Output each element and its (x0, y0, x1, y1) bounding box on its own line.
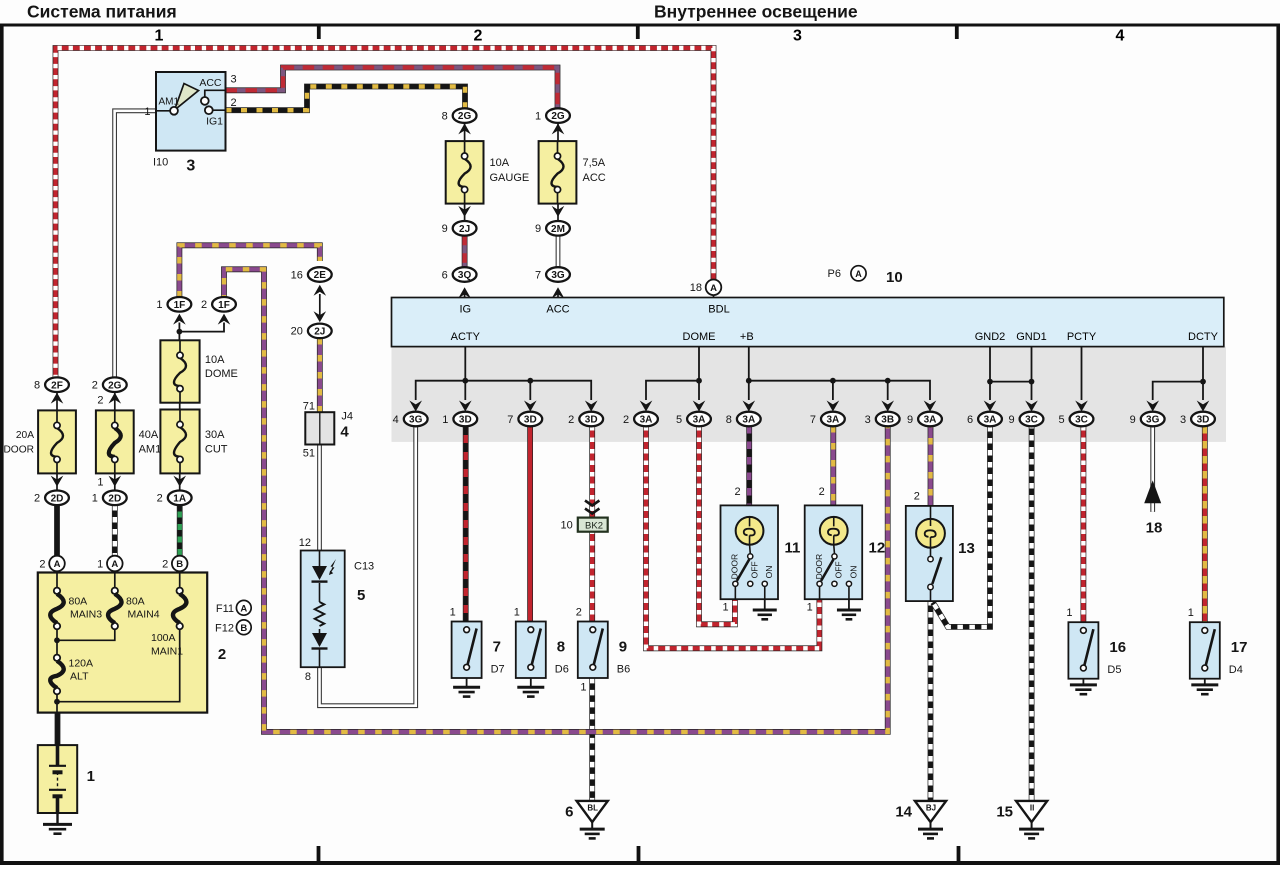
svg-text:DOOR: DOOR (814, 554, 824, 580)
svg-text:17: 17 (1231, 639, 1248, 656)
svg-text:7,5A: 7,5A (583, 157, 606, 169)
svg-text:2: 2 (97, 395, 103, 407)
svg-text:2J: 2J (314, 327, 325, 338)
fuse 30A CUT (179, 403, 181, 410)
node A from fuse AM1 (107, 556, 123, 572)
wire purple/yellow from connector 3A pin9 to lamp 13 pin2 (928, 426, 934, 506)
svg-text:1: 1 (87, 768, 95, 785)
svg-text:ACC: ACC (546, 303, 569, 315)
svg-text:ACTY: ACTY (451, 331, 481, 343)
connector 3D pin 7 (524, 401, 537, 412)
svg-text:2J: 2J (459, 224, 470, 235)
svg-text:F12: F12 (215, 622, 234, 634)
connector 3G pin7 (546, 267, 570, 282)
wire purple/yellow from connector 1F pin1 to connector 2E (179, 245, 319, 297)
svg-text:15: 15 (996, 803, 1013, 820)
connector 1F pin1 (168, 297, 192, 312)
svg-text:IG1: IG1 (206, 116, 223, 128)
main fusible link box item 2 (38, 573, 207, 713)
svg-text:3A: 3A (827, 415, 840, 426)
svg-text:4: 4 (340, 424, 349, 441)
fuse 40A AM1 (114, 392, 116, 410)
svg-text:18: 18 (1146, 520, 1163, 537)
connector 3A pin 9 (924, 401, 937, 412)
svg-text:10: 10 (561, 520, 573, 532)
connector 3A pin 6 (984, 401, 997, 412)
svg-text:A: A (710, 283, 717, 294)
svg-text:100A: 100A (151, 632, 176, 644)
svg-text:12: 12 (869, 539, 886, 556)
svg-text:16: 16 (291, 269, 303, 281)
svg-text:D4: D4 (1229, 664, 1243, 676)
connector 1F pin2 (212, 297, 236, 312)
svg-text:30A: 30A (205, 429, 225, 441)
svg-text:8: 8 (442, 110, 448, 122)
svg-text:J4: J4 (341, 411, 353, 423)
wire black from main fuse box to battery (55, 705, 61, 748)
svg-text:11: 11 (785, 539, 801, 556)
ignition switch I10 item 3 (144, 72, 236, 175)
svg-text:PCTY: PCTY (1067, 331, 1097, 343)
svg-text:9: 9 (619, 639, 627, 656)
svg-text:2: 2 (218, 646, 226, 663)
ECU pin name labels (451, 303, 1219, 343)
off-page connector arrow 18 (1144, 480, 1161, 503)
svg-text:BK2: BK2 (585, 520, 603, 531)
svg-text:3: 3 (1180, 414, 1186, 426)
connector 3Q pin6 (453, 267, 477, 282)
wire black/white from connector 2D pin1 to node A (112, 505, 118, 557)
svg-text:B: B (240, 623, 247, 634)
svg-text:1A: 1A (173, 493, 186, 504)
svg-text:80A: 80A (69, 596, 88, 608)
fusible link 120A ALT (54, 655, 60, 661)
svg-text:ACC: ACC (583, 172, 606, 184)
ground 15 II (1016, 801, 1047, 822)
wire purple/yellow from connector 3A pin7 to lamp 12 pin2 (830, 426, 836, 506)
svg-text:ON: ON (848, 566, 858, 579)
svg-text:1: 1 (442, 414, 448, 426)
svg-text:3Q: 3Q (458, 270, 472, 281)
node A at ECU BDL pin18 (706, 280, 722, 296)
wire white from J4 pin51 to C13 pin12 (317, 445, 322, 552)
svg-text:9: 9 (442, 223, 448, 235)
svg-text:1: 1 (514, 607, 520, 619)
svg-text:8: 8 (726, 414, 732, 426)
svg-text:GND2: GND2 (975, 331, 1006, 343)
svg-text:12: 12 (299, 537, 311, 549)
wire 1F junction to fuse DOME (178, 323, 180, 341)
svg-text:3A: 3A (693, 415, 706, 426)
svg-text:3G: 3G (551, 270, 565, 281)
svg-text:2: 2 (162, 558, 168, 570)
connector 2G pin2 (103, 377, 127, 392)
svg-text:BDL: BDL (708, 303, 729, 315)
connector 3D pin 2 (585, 401, 598, 412)
wire green/black from connector 1A to node B (177, 505, 183, 557)
svg-text:DOOR: DOOR (730, 554, 740, 580)
svg-text:1: 1 (722, 601, 728, 613)
svg-text:8: 8 (557, 639, 565, 656)
wire red/white from connector 3C pin5 to switch 16 (1081, 426, 1087, 622)
svg-text:2: 2 (623, 414, 629, 426)
svg-text:10: 10 (886, 269, 903, 286)
svg-text:ON: ON (764, 566, 774, 579)
svg-text:A: A (54, 559, 61, 570)
svg-text:1: 1 (97, 476, 103, 488)
fusible link 80A MAIN4 (114, 571, 116, 587)
svg-text:2: 2 (474, 28, 483, 45)
svg-text:3A: 3A (924, 415, 937, 426)
svg-text:ACC: ACC (199, 77, 222, 89)
svg-text:40A: 40A (139, 429, 159, 441)
svg-text:P6: P6 (828, 268, 841, 280)
svg-text:2D: 2D (108, 493, 121, 504)
svg-text:1: 1 (92, 493, 98, 505)
wire white from connector 3G pin4 via C13 loop (320, 426, 416, 706)
wire black from connector 2D to node A (54, 505, 60, 557)
svg-text:3A: 3A (742, 415, 755, 426)
svg-text:MAIN1: MAIN1 (151, 646, 183, 658)
ground of switch 16 (1082, 679, 1084, 685)
wire black/white from connector 3C pin9 to ground 15 (1029, 426, 1035, 800)
connector 3D pin 1 (459, 401, 472, 412)
svg-text:CUT: CUT (205, 443, 228, 455)
svg-text:AM1: AM1 (159, 96, 180, 107)
svg-text:II: II (1030, 803, 1034, 812)
svg-text:D5: D5 (1107, 664, 1121, 676)
svg-text:3A: 3A (640, 415, 653, 426)
ACTY distribution wiring (464, 347, 466, 381)
wire red/purple from ignition ACC pin3 to fuse ACC connector 2G (226, 68, 558, 110)
wire black/white from switch 9 pin1 to ground 6 (589, 678, 595, 800)
fuse 20A DOOR (56, 392, 58, 410)
svg-text:2: 2 (201, 299, 207, 311)
svg-text:3D: 3D (524, 415, 537, 426)
svg-text:1: 1 (144, 106, 150, 118)
ground 6 BL (577, 801, 608, 822)
svg-text:GND1: GND1 (1016, 331, 1047, 343)
svg-text:3D: 3D (585, 415, 598, 426)
wire red/purple from connector 2J to connector 3Q (IG feed) (462, 236, 468, 267)
svg-text:9: 9 (1130, 414, 1136, 426)
svg-text:120A: 120A (69, 658, 94, 670)
svg-text:B6: B6 (617, 664, 630, 676)
wire red/white from connector 3D pin2 through BK2 to switch 9 (589, 426, 595, 622)
svg-text:OFF: OFF (834, 561, 844, 578)
svg-text:5: 5 (1058, 414, 1064, 426)
svg-text:2: 2 (39, 558, 45, 570)
svg-text:F11: F11 (216, 603, 234, 615)
svg-text:DOOR: DOOR (3, 444, 34, 455)
svg-text:MAIN4: MAIN4 (128, 609, 160, 621)
door switch item 7 (452, 622, 482, 679)
svg-text:13: 13 (958, 540, 975, 557)
connector 3G pin 9 (1146, 401, 1159, 412)
wire white stub of off-page arrow 18 (1150, 426, 1155, 512)
connector 2G pin1 (546, 108, 570, 123)
door switch item 16 (1068, 622, 1098, 679)
wire black/yellow from ignition IG1 pin2 to fuse GAUGE connector 2G (226, 87, 466, 111)
svg-text:1: 1 (535, 110, 541, 122)
internal wiring of main fuse box (57, 629, 115, 640)
connector 2G pin8 (453, 108, 477, 123)
dome lamp item 12 (805, 505, 863, 599)
wire red/white from connector 3A pin2 to lamp 12 pin1 (646, 426, 819, 648)
svg-text:51: 51 (303, 448, 315, 460)
svg-text:8: 8 (34, 380, 40, 392)
wire red/white from connector 3A pin5 to lamp 11 pin1 (699, 426, 735, 624)
svg-text:80A: 80A (126, 596, 145, 608)
connector 2J pin9 (464, 204, 466, 222)
svg-text:2: 2 (34, 493, 40, 505)
wire purple/yellow long run from connector 1F pin2 to connector 3B (224, 269, 888, 732)
svg-text:2: 2 (568, 414, 574, 426)
svg-text:3D: 3D (1197, 415, 1210, 426)
ground below battery (56, 813, 58, 824)
connector 2D pin2 (56, 473, 58, 490)
svg-text:1: 1 (156, 299, 162, 311)
wire yellow/red from connector 3D pin3 to switch 17 (1202, 426, 1208, 622)
svg-text:3C: 3C (1075, 415, 1088, 426)
svg-text:3B: 3B (881, 415, 894, 426)
ground 14 BJ (915, 801, 946, 822)
svg-text:3C: 3C (1025, 415, 1038, 426)
svg-text:3: 3 (186, 158, 195, 175)
svg-text:7: 7 (507, 414, 513, 426)
fuse 10A DOME (160, 340, 199, 402)
sensor C13 item 5 (299, 537, 374, 683)
connector 2E pin16 (308, 267, 332, 282)
svg-text:+B: +B (740, 331, 754, 343)
svg-text:2: 2 (157, 493, 163, 505)
svg-text:2D: 2D (51, 493, 64, 504)
svg-text:3: 3 (865, 414, 871, 426)
svg-text:7: 7 (493, 639, 501, 656)
svg-text:OFF: OFF (750, 561, 760, 578)
svg-text:I10: I10 (153, 157, 168, 169)
node B from fuse CUT (172, 556, 188, 572)
wire black/white from lamp 13 pin1 to ground 14 (928, 600, 934, 800)
connector BK2 pin10 (585, 501, 599, 514)
svg-text:2: 2 (734, 486, 740, 498)
svg-text:DOME: DOME (683, 331, 716, 343)
svg-text:D7: D7 (491, 664, 505, 676)
GND2 GND1 distribution wiring (989, 347, 991, 400)
svg-text:3A: 3A (984, 415, 997, 426)
svg-text:DCTY: DCTY (1188, 331, 1219, 343)
svg-text:1: 1 (450, 607, 456, 619)
connector 2F pin8 (45, 377, 69, 392)
wire battery feed red/white from fuse 2F to node A/BDL (56, 48, 714, 379)
wire purple/yellow from connector 2J to junction J4 pin71 (317, 338, 323, 412)
connector 3C pin 5 (1075, 401, 1088, 412)
svg-text:C13: C13 (354, 561, 374, 573)
junction connector J4 item 4 (305, 412, 334, 444)
svg-text:MAIN3: MAIN3 (70, 609, 102, 621)
connector 2D pin1 (114, 473, 116, 490)
svg-text:1: 1 (1066, 607, 1072, 619)
svg-text:2M: 2M (551, 224, 565, 235)
node A from fuse DOOR (49, 556, 65, 572)
svg-text:2G: 2G (108, 380, 122, 391)
svg-text:ALT: ALT (70, 671, 89, 683)
svg-text:5: 5 (357, 587, 365, 604)
wire black/purple from connector 3A pin8 to lamp 11 pin2 (746, 426, 752, 506)
svg-text:1: 1 (155, 28, 164, 45)
svg-text:Система питания: Система питания (27, 2, 177, 22)
svg-text:6: 6 (442, 269, 448, 281)
luggage lamp item 13 (906, 491, 975, 602)
fusible link 100A MAIN1 (179, 571, 181, 587)
svg-text:9: 9 (907, 414, 913, 426)
dome lamp item 11 (721, 505, 779, 599)
svg-text:7: 7 (810, 414, 816, 426)
svg-text:10A: 10A (205, 354, 225, 366)
wire red from connector 3D pin7 to switch 8 (527, 426, 533, 622)
svg-text:A: A (111, 559, 118, 570)
svg-text:1F: 1F (218, 300, 230, 311)
svg-text:10A: 10A (490, 157, 510, 169)
svg-text:DOME: DOME (205, 368, 238, 380)
svg-text:9: 9 (535, 223, 541, 235)
connector 3B pin 3 (881, 401, 894, 412)
PCTY distribution wiring (1081, 347, 1083, 400)
DOME distribution wiring (646, 347, 699, 400)
svg-text:2E: 2E (314, 270, 327, 281)
wire red/black from connector 3D pin1 to switch 7 (463, 426, 469, 622)
connector 3A pin 5 (693, 401, 706, 412)
svg-text:A: A (855, 269, 862, 279)
svg-text:2: 2 (819, 486, 825, 498)
connector 3C pin 9 (1025, 401, 1038, 412)
svg-text:1F: 1F (174, 300, 186, 311)
svg-text:4: 4 (393, 414, 399, 426)
svg-text:A: A (240, 603, 247, 614)
svg-text:8: 8 (305, 671, 311, 683)
svg-text:71: 71 (303, 401, 315, 413)
svg-text:7: 7 (535, 269, 541, 281)
svg-text:2: 2 (231, 97, 237, 109)
svg-text:2G: 2G (551, 111, 565, 122)
ECU junction block 10 blue band (392, 298, 1224, 347)
svg-text:3: 3 (793, 28, 802, 45)
DCTY distribution wiring (1202, 347, 1204, 400)
svg-text:B: B (176, 559, 183, 570)
svg-text:IG: IG (459, 303, 471, 315)
svg-text:1: 1 (807, 601, 813, 613)
connector 3D pin 3 (1197, 401, 1210, 412)
connector 3A pin 8 (743, 401, 756, 412)
wire white from ignition AM1 pin1 to connector 2G (115, 111, 156, 379)
svg-text:AM1: AM1 (139, 443, 162, 455)
svg-text:3G: 3G (409, 415, 423, 426)
connector 2J pin20 (319, 294, 321, 315)
svg-text:1: 1 (1188, 607, 1194, 619)
svg-text:3: 3 (231, 74, 237, 86)
svg-text:2G: 2G (458, 111, 472, 122)
svg-text:2: 2 (576, 607, 582, 619)
connector 3A pin 2 (640, 401, 653, 412)
svg-text:D6: D6 (555, 664, 569, 676)
door switch item 17 (1190, 622, 1220, 679)
ECU junction block 10 gray band (392, 347, 1227, 442)
svg-text:Внутреннее освещение: Внутреннее освещение (654, 2, 858, 22)
battery item 1 (38, 745, 77, 813)
svg-text:2: 2 (914, 491, 920, 503)
svg-text:6: 6 (967, 414, 973, 426)
door switch item 9 (578, 622, 608, 679)
svg-text:3D: 3D (459, 415, 472, 426)
+B distribution wiring (749, 347, 930, 400)
svg-text:1: 1 (97, 558, 103, 570)
wire white from connector 2M to connector 3G (ACC feed) (556, 236, 561, 267)
svg-text:BJ: BJ (926, 803, 936, 812)
svg-text:BL: BL (587, 803, 598, 812)
fuse 10A GAUGE (464, 123, 466, 141)
svg-text:16: 16 (1109, 639, 1126, 656)
svg-text:20A: 20A (16, 430, 34, 441)
connector 1A pin2 (179, 473, 181, 490)
svg-text:2: 2 (92, 380, 98, 392)
svg-text:9: 9 (1008, 414, 1014, 426)
ground of switch 7 (466, 678, 468, 687)
svg-text:5: 5 (676, 414, 682, 426)
connector 3G pin 4 (409, 401, 422, 412)
door switch item 8 (516, 622, 546, 679)
svg-text:GAUGE: GAUGE (490, 172, 530, 184)
fusible link 80A MAIN3 (56, 571, 58, 587)
ground of switch 17 (1204, 679, 1206, 685)
svg-text:3G: 3G (1146, 415, 1160, 426)
connector 2M pin9 (557, 204, 559, 222)
svg-text:4: 4 (1116, 28, 1125, 45)
svg-text:20: 20 (291, 326, 303, 338)
fuse 7,5A ACC (557, 123, 559, 141)
svg-text:18: 18 (690, 282, 702, 294)
svg-text:2F: 2F (51, 380, 63, 391)
wire black/white from connector 3A pin6 to lamp 13 junction (933, 426, 990, 627)
svg-text:6: 6 (565, 803, 573, 820)
connector 3A pin 7 (827, 401, 840, 412)
ground of switch 8 (530, 678, 532, 687)
svg-text:14: 14 (895, 803, 912, 820)
svg-text:1: 1 (580, 682, 586, 694)
column numbers (155, 28, 1125, 45)
